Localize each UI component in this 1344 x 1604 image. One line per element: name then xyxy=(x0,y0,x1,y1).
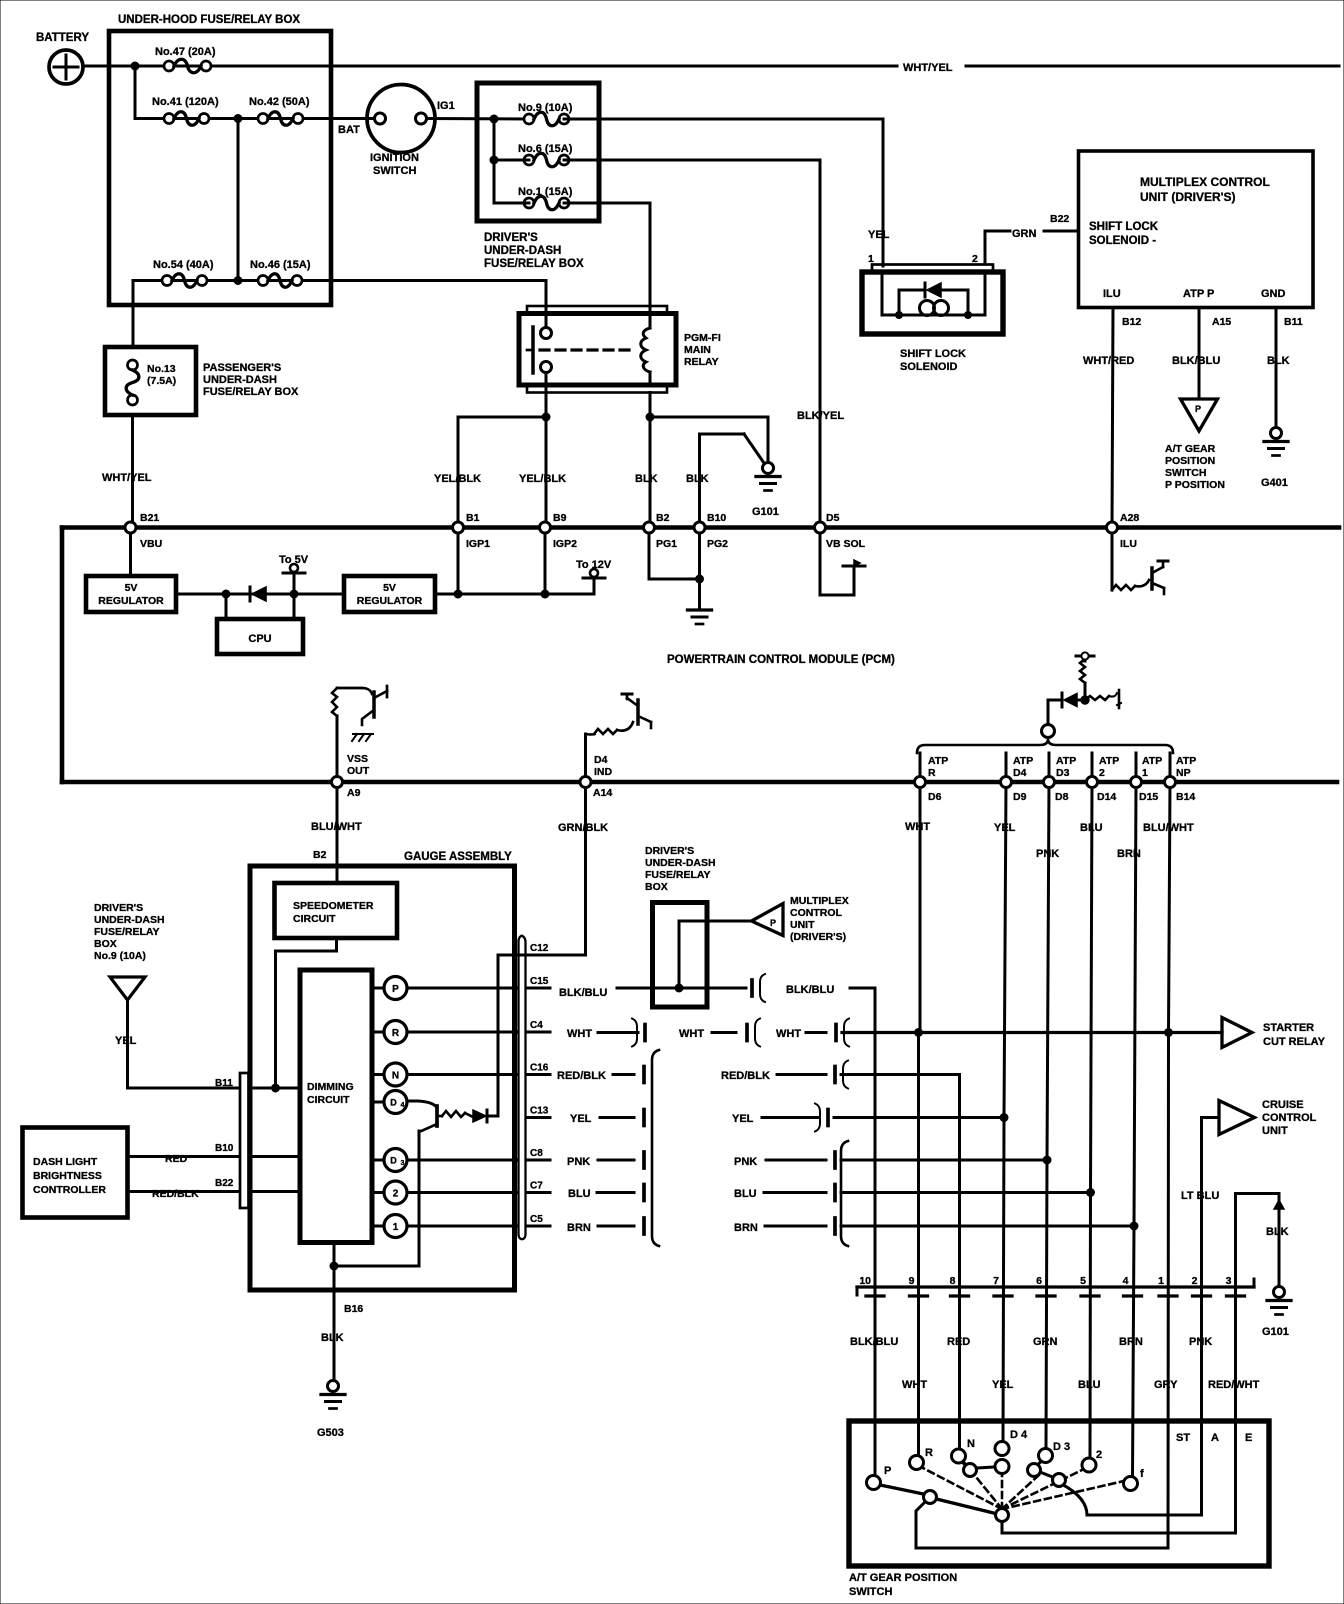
svg-text:YEL: YEL xyxy=(732,1113,754,1125)
svg-text:ILU: ILU xyxy=(1120,538,1137,550)
svg-text:CONTROL: CONTROL xyxy=(1262,1112,1317,1124)
svg-text:LT BLU: LT BLU xyxy=(1181,1190,1219,1202)
svg-text:UNDER-DASH: UNDER-DASH xyxy=(203,374,277,386)
svg-text:D: D xyxy=(390,1156,397,1166)
svg-text:MULTIPLEX: MULTIPLEX xyxy=(790,895,849,907)
svg-text:ATP: ATP xyxy=(1056,755,1076,767)
svg-text:OUT: OUT xyxy=(347,765,370,777)
svg-text:B2: B2 xyxy=(313,849,327,861)
svg-text:YEL: YEL xyxy=(570,1113,592,1125)
svg-text:D 4: D 4 xyxy=(1010,1429,1028,1441)
svg-text:B9: B9 xyxy=(553,512,567,524)
svg-text:BLK/BLU: BLK/BLU xyxy=(1172,355,1220,367)
svg-text:UNDER-DASH: UNDER-DASH xyxy=(94,914,165,926)
svg-text:BLU: BLU xyxy=(568,1188,591,1200)
svg-text:DRIVER'S: DRIVER'S xyxy=(94,902,143,914)
svg-text:R: R xyxy=(928,767,936,779)
svg-text:DASH LIGHT: DASH LIGHT xyxy=(33,1156,98,1168)
svg-text:GRN: GRN xyxy=(1033,1336,1058,1348)
svg-text:YEL/BLK: YEL/BLK xyxy=(434,473,481,485)
svg-text:MAIN: MAIN xyxy=(684,344,711,356)
svg-text:UNDER-DASH: UNDER-DASH xyxy=(484,245,561,257)
svg-text:To 5V: To 5V xyxy=(279,554,309,566)
svg-text:BRN: BRN xyxy=(567,1222,591,1234)
svg-text:PG2: PG2 xyxy=(707,538,728,550)
svg-text:BRN: BRN xyxy=(734,1222,758,1234)
svg-text:4: 4 xyxy=(1123,1275,1129,1287)
svg-text:D3: D3 xyxy=(1056,767,1070,779)
svg-text:BLK/BLU: BLK/BLU xyxy=(850,1336,898,1348)
svg-text:WHT/YEL: WHT/YEL xyxy=(102,472,152,484)
svg-text:BRN: BRN xyxy=(1119,1336,1143,1348)
svg-text:2: 2 xyxy=(1192,1275,1198,1287)
svg-text:DRIVER'S: DRIVER'S xyxy=(645,845,694,857)
svg-text:YEL/BLK: YEL/BLK xyxy=(519,473,566,485)
svg-text:ATP: ATP xyxy=(1099,755,1119,767)
svg-text:CUT RELAY: CUT RELAY xyxy=(1263,1036,1326,1048)
svg-text:5: 5 xyxy=(1080,1275,1086,1287)
svg-text:To 12V: To 12V xyxy=(576,559,612,571)
svg-text:(7.5A): (7.5A) xyxy=(147,375,176,387)
svg-text:No.1 (15A): No.1 (15A) xyxy=(518,186,573,198)
svg-text:B11: B11 xyxy=(215,1078,233,1089)
svg-text:CONTROL: CONTROL xyxy=(790,907,842,919)
svg-text:B12: B12 xyxy=(1122,316,1141,328)
svg-text:GRN/BLK: GRN/BLK xyxy=(558,822,608,834)
svg-text:PNK: PNK xyxy=(1189,1336,1212,1348)
svg-text:No.47 (20A): No.47 (20A) xyxy=(155,46,216,58)
svg-text:UNIT: UNIT xyxy=(790,919,815,931)
svg-text:REGULATOR: REGULATOR xyxy=(357,595,423,607)
svg-text:1: 1 xyxy=(393,1222,399,1233)
svg-text:2: 2 xyxy=(1099,767,1105,779)
svg-text:IG1: IG1 xyxy=(437,100,455,112)
svg-text:BLU: BLU xyxy=(734,1188,757,1200)
svg-text:SOLENOID -: SOLENOID - xyxy=(1089,235,1156,247)
svg-text:BOX: BOX xyxy=(645,881,668,893)
svg-text:PGM-FI: PGM-FI xyxy=(684,332,721,344)
svg-text:B11: B11 xyxy=(1284,316,1303,328)
svg-text:ILU: ILU xyxy=(1103,288,1121,300)
svg-text:2: 2 xyxy=(972,253,978,265)
svg-text:VB SOL: VB SOL xyxy=(826,538,866,550)
svg-text:POSITION: POSITION xyxy=(1165,455,1215,467)
svg-text:RED: RED xyxy=(947,1336,970,1348)
svg-text:WHT: WHT xyxy=(567,1028,592,1040)
svg-text:UNDER-HOOD FUSE/RELAY BOX: UNDER-HOOD FUSE/RELAY BOX xyxy=(118,14,300,26)
svg-text:D5: D5 xyxy=(826,512,840,524)
svg-text:CRUISE: CRUISE xyxy=(1262,1099,1304,1111)
svg-text:A14: A14 xyxy=(593,787,612,799)
svg-text:No.46 (15A): No.46 (15A) xyxy=(250,259,311,271)
svg-text:P: P xyxy=(884,1465,891,1477)
svg-text:B22: B22 xyxy=(1050,213,1069,225)
svg-text:GAUGE ASSEMBLY: GAUGE ASSEMBLY xyxy=(404,851,512,863)
svg-text:BAT: BAT xyxy=(338,124,360,136)
svg-text:3: 3 xyxy=(401,1160,405,1167)
svg-text:REGULATOR: REGULATOR xyxy=(98,595,164,607)
svg-text:FUSE/RELAY: FUSE/RELAY xyxy=(645,869,711,881)
svg-text:GND: GND xyxy=(1261,288,1286,300)
svg-text:VBU: VBU xyxy=(140,538,162,550)
svg-text:2: 2 xyxy=(1096,1449,1102,1461)
svg-text:BLK/BLU: BLK/BLU xyxy=(559,987,607,999)
svg-text:BLK/YEL: BLK/YEL xyxy=(797,410,844,422)
svg-text:RED/BLK: RED/BLK xyxy=(152,1188,199,1200)
svg-text:1: 1 xyxy=(1158,1275,1164,1287)
svg-text:D9: D9 xyxy=(1013,791,1027,803)
svg-text:C16: C16 xyxy=(530,1063,549,1074)
svg-text:BLU: BLU xyxy=(1078,1379,1101,1391)
svg-text:G503: G503 xyxy=(317,1427,344,1439)
svg-text:STARTER: STARTER xyxy=(1263,1022,1314,1034)
svg-text:3: 3 xyxy=(1226,1275,1232,1287)
svg-text:B10: B10 xyxy=(707,512,726,524)
svg-text:G401: G401 xyxy=(1261,477,1288,489)
svg-text:CONTROLLER: CONTROLLER xyxy=(33,1184,106,1196)
svg-text:C5: C5 xyxy=(530,1214,543,1225)
svg-text:C12: C12 xyxy=(530,943,549,954)
svg-text:D15: D15 xyxy=(1139,791,1158,803)
svg-text:D8: D8 xyxy=(1055,791,1069,803)
svg-text:B14: B14 xyxy=(1176,791,1195,803)
svg-text:IGNITION: IGNITION xyxy=(370,152,419,164)
svg-text:MULTIPLEX CONTROL: MULTIPLEX CONTROL xyxy=(1140,175,1270,189)
svg-text:NP: NP xyxy=(1176,767,1191,779)
svg-text:G101: G101 xyxy=(752,506,779,518)
svg-text:A/T GEAR POSITION: A/T GEAR POSITION xyxy=(849,1572,957,1584)
svg-text:CPU: CPU xyxy=(248,633,271,645)
svg-text:YEL: YEL xyxy=(992,1379,1014,1391)
svg-text:CIRCUIT: CIRCUIT xyxy=(293,913,336,925)
svg-text:1: 1 xyxy=(868,253,874,265)
svg-text:8: 8 xyxy=(950,1275,956,1287)
svg-text:ATP: ATP xyxy=(1142,755,1162,767)
svg-text:No.41 (120A): No.41 (120A) xyxy=(152,96,219,108)
svg-text:A15: A15 xyxy=(1212,316,1231,328)
svg-text:No.9 (10A): No.9 (10A) xyxy=(518,102,573,114)
svg-text:f: f xyxy=(1140,1468,1144,1480)
svg-text:ATP: ATP xyxy=(1176,755,1196,767)
svg-text:IGP2: IGP2 xyxy=(553,538,577,550)
svg-text:No.6 (15A): No.6 (15A) xyxy=(518,143,573,155)
svg-text:VSS: VSS xyxy=(347,753,368,765)
svg-text:RED/BLK: RED/BLK xyxy=(721,1070,770,1082)
svg-text:BLK: BLK xyxy=(1266,1226,1289,1238)
svg-text:D 3: D 3 xyxy=(1053,1441,1070,1453)
svg-text:9: 9 xyxy=(909,1275,915,1287)
svg-text:SPEEDOMETER: SPEEDOMETER xyxy=(293,900,374,912)
svg-text:C15: C15 xyxy=(530,976,549,987)
svg-text:2: 2 xyxy=(393,1189,399,1200)
svg-text:6: 6 xyxy=(1036,1275,1042,1287)
svg-text:BLK: BLK xyxy=(321,1332,344,1344)
svg-text:SWITCH: SWITCH xyxy=(849,1586,892,1598)
svg-text:SWITCH: SWITCH xyxy=(1165,467,1206,479)
svg-text:R: R xyxy=(925,1447,933,1459)
svg-text:GRN: GRN xyxy=(1012,228,1037,240)
svg-text:BATTERY: BATTERY xyxy=(36,32,89,44)
svg-text:DIMMING: DIMMING xyxy=(307,1081,354,1093)
svg-text:PNK: PNK xyxy=(734,1156,757,1168)
svg-text:RED/BLK: RED/BLK xyxy=(557,1070,606,1082)
svg-text:IGP1: IGP1 xyxy=(466,538,490,550)
svg-text:BLK: BLK xyxy=(686,473,709,485)
svg-text:BLK: BLK xyxy=(635,473,658,485)
svg-text:RED/WHT: RED/WHT xyxy=(1208,1379,1260,1391)
svg-text:D: D xyxy=(390,1098,397,1108)
svg-text:E: E xyxy=(1245,1432,1252,1444)
svg-text:YEL: YEL xyxy=(868,229,890,241)
svg-text:FUSE/RELAY BOX: FUSE/RELAY BOX xyxy=(203,386,299,398)
svg-text:BOX: BOX xyxy=(94,938,117,950)
svg-text:C4: C4 xyxy=(530,1020,543,1031)
svg-text:POWERTRAIN CONTROL MODULE (PCM: POWERTRAIN CONTROL MODULE (PCM) xyxy=(667,654,895,666)
svg-text:SHIFT LOCK: SHIFT LOCK xyxy=(1089,221,1159,233)
svg-text:A/T GEAR: A/T GEAR xyxy=(1165,443,1216,455)
svg-text:5V: 5V xyxy=(125,582,138,594)
svg-text:WHT: WHT xyxy=(905,821,930,833)
svg-text:D4: D4 xyxy=(594,754,608,766)
svg-text:WHT/YEL: WHT/YEL xyxy=(903,62,953,74)
svg-text:P: P xyxy=(1195,404,1201,414)
svg-text:C8: C8 xyxy=(530,1148,543,1159)
svg-text:WHT: WHT xyxy=(776,1028,801,1040)
svg-text:ATP P: ATP P xyxy=(1183,288,1214,300)
svg-text:YEL: YEL xyxy=(115,1035,137,1047)
svg-text:N: N xyxy=(967,1438,975,1450)
svg-text:BLK: BLK xyxy=(1267,355,1290,367)
svg-text:WHT: WHT xyxy=(679,1028,704,1040)
svg-text:B22: B22 xyxy=(215,1178,234,1189)
svg-text:ATP: ATP xyxy=(1013,755,1033,767)
svg-text:WHT: WHT xyxy=(902,1379,927,1391)
svg-text:GRY: GRY xyxy=(1154,1379,1178,1391)
svg-text:C7: C7 xyxy=(530,1181,543,1192)
svg-text:PG1: PG1 xyxy=(656,538,677,550)
svg-text:D14: D14 xyxy=(1097,791,1116,803)
svg-text:10: 10 xyxy=(859,1275,871,1287)
svg-text:FUSE/RELAY BOX: FUSE/RELAY BOX xyxy=(484,258,584,270)
svg-text:ATP: ATP xyxy=(928,755,948,767)
svg-text:DRIVER'S: DRIVER'S xyxy=(484,232,538,244)
svg-text:RELAY: RELAY xyxy=(684,356,719,368)
svg-text:P: P xyxy=(392,984,399,995)
svg-text:SWITCH: SWITCH xyxy=(373,165,416,177)
svg-text:No.54 (40A): No.54 (40A) xyxy=(153,259,214,271)
svg-text:FUSE/RELAY: FUSE/RELAY xyxy=(94,926,160,938)
svg-text:PASSENGER'S: PASSENGER'S xyxy=(203,362,281,374)
svg-text:B16: B16 xyxy=(344,1303,363,1315)
svg-text:B1: B1 xyxy=(466,512,480,524)
svg-text:UNIT: UNIT xyxy=(1262,1125,1288,1137)
svg-text:No.9 (10A): No.9 (10A) xyxy=(94,950,146,962)
svg-text:BRN: BRN xyxy=(1117,848,1141,860)
svg-text:CIRCUIT: CIRCUIT xyxy=(307,1094,350,1106)
svg-text:G101: G101 xyxy=(1262,1326,1289,1338)
svg-text:1: 1 xyxy=(1142,767,1148,779)
svg-text:B10: B10 xyxy=(215,1143,234,1154)
svg-text:7: 7 xyxy=(993,1275,999,1287)
svg-text:ST: ST xyxy=(1176,1432,1190,1444)
svg-text:PNK: PNK xyxy=(567,1156,590,1168)
svg-text:A28: A28 xyxy=(1120,512,1139,524)
svg-text:UNDER-DASH: UNDER-DASH xyxy=(645,857,716,869)
svg-text:B21: B21 xyxy=(140,512,159,524)
svg-text:IND: IND xyxy=(594,766,613,778)
svg-text:5V: 5V xyxy=(383,582,396,594)
svg-text:R: R xyxy=(392,1028,400,1039)
svg-text:BRIGHTNESS: BRIGHTNESS xyxy=(33,1170,102,1182)
svg-text:D6: D6 xyxy=(928,791,942,803)
svg-text:4: 4 xyxy=(401,1102,405,1109)
svg-text:P: P xyxy=(770,918,776,928)
svg-text:No.42 (50A): No.42 (50A) xyxy=(249,96,310,108)
svg-text:C13: C13 xyxy=(530,1106,549,1117)
svg-text:P POSITION: P POSITION xyxy=(1165,479,1225,491)
svg-text:B2: B2 xyxy=(656,512,670,524)
svg-text:SOLENOID: SOLENOID xyxy=(900,361,958,373)
svg-text:SHIFT LOCK: SHIFT LOCK xyxy=(900,348,966,360)
svg-text:RED: RED xyxy=(165,1153,188,1165)
svg-text:No.13: No.13 xyxy=(147,363,176,375)
svg-text:(DRIVER'S): (DRIVER'S) xyxy=(790,931,846,943)
svg-text:N: N xyxy=(392,1071,399,1082)
svg-text:D4: D4 xyxy=(1013,767,1027,779)
svg-text:UNIT (DRIVER'S): UNIT (DRIVER'S) xyxy=(1140,190,1236,204)
svg-text:A: A xyxy=(1211,1432,1219,1444)
svg-text:BLK/BLU: BLK/BLU xyxy=(786,984,834,996)
svg-text:A9: A9 xyxy=(347,787,361,799)
svg-text:WHT/RED: WHT/RED xyxy=(1083,355,1134,367)
